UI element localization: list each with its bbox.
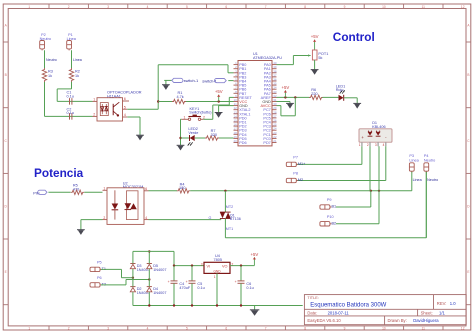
- svg-text:1: 1: [103, 187, 105, 191]
- svg-text:+5V: +5V: [251, 252, 259, 257]
- svg-text:6: 6: [225, 327, 227, 331]
- svg-text:5: 5: [124, 105, 126, 109]
- svg-text:Date:: Date:: [307, 311, 317, 316]
- svg-text:switch-1: switch-1: [184, 78, 199, 83]
- svg-text:2: 2: [68, 327, 70, 331]
- svg-text:6: 6: [225, 5, 227, 9]
- svg-text:5k: 5k: [318, 56, 322, 60]
- svg-text:Linea: Linea: [409, 159, 419, 163]
- svg-text:2: 2: [203, 116, 205, 120]
- svg-text:1: 1: [184, 116, 186, 120]
- svg-text:Linea: Linea: [73, 58, 82, 62]
- svg-text:9: 9: [344, 327, 346, 331]
- svg-text:0.1u: 0.1u: [67, 111, 74, 115]
- svg-text:+: +: [186, 280, 188, 284]
- svg-text:2018-07-11: 2018-07-11: [328, 311, 350, 316]
- svg-text:+: +: [235, 280, 237, 284]
- svg-text:6: 6: [124, 97, 126, 101]
- svg-text:5: 5: [186, 327, 188, 331]
- svg-text:DavidHiguera: DavidHiguera: [413, 318, 439, 323]
- svg-text:VO: VO: [222, 265, 228, 269]
- svg-text:470: 470: [73, 188, 79, 192]
- svg-text:1k: 1k: [75, 74, 79, 78]
- svg-text:2: 2: [367, 143, 369, 147]
- svg-text:1.0: 1.0: [450, 301, 456, 306]
- svg-text:VI: VI: [207, 265, 211, 269]
- svg-text:1: 1: [214, 275, 216, 279]
- svg-text:Neutro: Neutro: [424, 159, 435, 163]
- svg-text:1: 1: [93, 98, 95, 102]
- svg-text:11: 11: [422, 327, 426, 331]
- svg-text:3: 3: [375, 143, 377, 147]
- svg-text:4: 4: [147, 327, 149, 331]
- svg-text:4: 4: [383, 143, 385, 147]
- svg-text:7: 7: [265, 327, 267, 331]
- svg-text:R2: R2: [75, 70, 80, 74]
- svg-text:0.1u: 0.1u: [197, 286, 204, 290]
- svg-text:+5V: +5V: [311, 34, 319, 39]
- svg-text:21: 21: [273, 139, 277, 143]
- svg-text:9: 9: [344, 5, 346, 9]
- svg-text:P3: P3: [409, 154, 414, 158]
- svg-text:Potencia: Potencia: [34, 166, 84, 180]
- svg-text:1: 1: [359, 143, 361, 147]
- svg-text:4.7k: 4.7k: [177, 95, 184, 99]
- svg-text:470uF: 470uF: [179, 286, 190, 290]
- svg-text:4: 4: [124, 113, 126, 117]
- svg-text:MT1: MT1: [226, 227, 233, 231]
- svg-text:B2: B2: [332, 221, 337, 225]
- svg-text:BT136: BT136: [230, 217, 241, 221]
- svg-text:Control: Control: [333, 30, 375, 44]
- svg-text:8: 8: [304, 327, 306, 331]
- svg-text:12: 12: [461, 327, 465, 331]
- svg-text:1: 1: [28, 327, 30, 331]
- svg-text:4: 4: [147, 5, 149, 9]
- svg-text:2: 2: [68, 5, 70, 9]
- svg-text:P8: P8: [293, 172, 298, 176]
- svg-text:10: 10: [382, 327, 386, 331]
- svg-text:KBL406: KBL406: [372, 125, 386, 129]
- svg-text:M2: M2: [298, 178, 303, 182]
- svg-text:B1: B1: [332, 205, 337, 209]
- svg-text:B: B: [467, 73, 469, 77]
- svg-text:P4: P4: [424, 154, 429, 158]
- svg-text:Esquematico Batidora 300W: Esquematico Batidora 300W: [310, 303, 386, 309]
- svg-text:7: 7: [265, 5, 267, 9]
- svg-text:1k: 1k: [48, 74, 52, 78]
- svg-text:P10: P10: [327, 215, 334, 219]
- svg-text:6: 6: [145, 187, 147, 191]
- svg-text:PD6: PD6: [239, 141, 246, 145]
- svg-text:10: 10: [382, 5, 386, 9]
- svg-text:3: 3: [107, 5, 109, 9]
- svg-text:0.1u: 0.1u: [246, 286, 253, 290]
- svg-text:11: 11: [422, 5, 426, 9]
- svg-text:Drawn By:: Drawn By:: [388, 318, 407, 323]
- svg-text:P7: P7: [293, 156, 298, 160]
- svg-text:P9: P9: [327, 198, 332, 202]
- svg-text:EasyEDA V5.6.10: EasyEDA V5.6.10: [307, 318, 341, 323]
- svg-text:REV:: REV:: [437, 301, 447, 306]
- svg-text:GND: GND: [213, 269, 221, 273]
- svg-text:E: E: [5, 270, 7, 274]
- svg-text:MT2: MT2: [226, 205, 233, 209]
- svg-text:12: 12: [461, 5, 465, 9]
- svg-text:7805: 7805: [214, 258, 222, 262]
- svg-text:220: 220: [311, 92, 317, 96]
- svg-text:320: 320: [211, 133, 217, 137]
- svg-text:E: E: [467, 270, 469, 274]
- svg-text:Linea: Linea: [413, 178, 423, 182]
- svg-text:ATMEGA32A-PU: ATMEGA32A-PU: [253, 56, 282, 60]
- svg-text:TITLE:: TITLE:: [307, 296, 318, 300]
- svg-text:M1+: M1+: [298, 162, 306, 166]
- svg-text:G: G: [209, 216, 212, 220]
- svg-text:Rojo: Rojo: [336, 88, 344, 92]
- svg-text:1: 1: [28, 5, 30, 9]
- svg-text:8: 8: [304, 5, 306, 9]
- svg-text:1N4007: 1N4007: [153, 291, 166, 295]
- svg-text:B: B: [5, 73, 7, 77]
- svg-text:+5V: +5V: [282, 85, 290, 90]
- svg-text:1N4007: 1N4007: [153, 268, 166, 272]
- svg-text:2: 2: [103, 216, 105, 220]
- svg-text:Sheet:: Sheet:: [421, 311, 433, 316]
- svg-text:Neutro: Neutro: [46, 58, 57, 62]
- svg-text:3: 3: [107, 327, 109, 331]
- svg-text:4: 4: [145, 216, 147, 220]
- svg-text:20: 20: [233, 139, 237, 143]
- svg-text:R3: R3: [48, 70, 53, 74]
- svg-text:180: 180: [179, 186, 185, 190]
- svg-text:P6: P6: [97, 276, 102, 280]
- svg-text:Switch(butto): Switch(butto): [189, 111, 212, 115]
- svg-text:Verde: Verde: [188, 131, 198, 135]
- svg-text:Neutro: Neutro: [427, 178, 438, 182]
- svg-text:3: 3: [201, 262, 203, 266]
- svg-text:1/1: 1/1: [439, 311, 445, 316]
- svg-text:+: +: [168, 280, 170, 284]
- svg-text:+5V: +5V: [215, 89, 223, 94]
- svg-text:MOC3021M: MOC3021M: [123, 185, 143, 189]
- svg-text:2: 2: [93, 113, 95, 117]
- svg-text:0.1u: 0.1u: [67, 95, 74, 99]
- svg-text:PD7: PD7: [263, 141, 270, 145]
- svg-text:P5: P5: [97, 261, 102, 265]
- svg-text:5: 5: [186, 5, 188, 9]
